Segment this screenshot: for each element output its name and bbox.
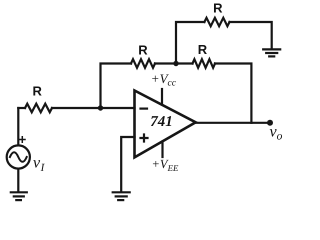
svg-text:vo: vo [270,124,283,143]
svg-text:R: R [138,43,148,58]
svg-text:R: R [198,42,208,57]
svg-text:+VEE: +VEE [152,157,179,173]
svg-text:741: 741 [150,114,173,130]
svg-text:R: R [33,83,43,98]
svg-text:+Vcc: +Vcc [151,71,177,89]
svg-text:vI: vI [33,154,46,174]
svg-text:R: R [213,0,223,15]
